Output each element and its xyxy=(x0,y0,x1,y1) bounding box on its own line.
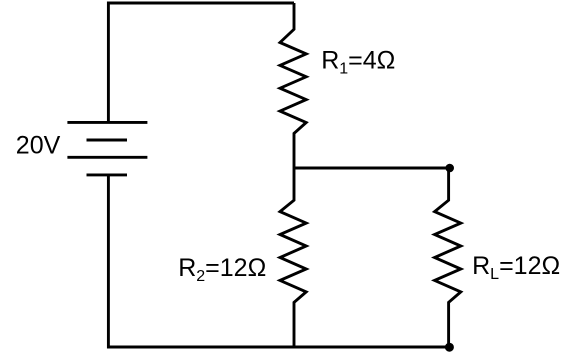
svg-text:20V: 20V xyxy=(16,131,61,159)
svg-text:R1=4Ω: R1=4Ω xyxy=(321,47,395,78)
svg-text:R2=12Ω: R2=12Ω xyxy=(178,254,266,285)
svg-text:RL=12Ω: RL=12Ω xyxy=(472,252,560,283)
